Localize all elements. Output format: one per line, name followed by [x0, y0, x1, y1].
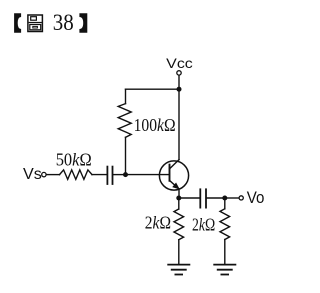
wire base lead: [126, 174, 169, 176]
svg-text:100kΩ: 100kΩ: [134, 115, 176, 135]
figure label 【圖 38】: [14, 10, 87, 35]
wire R3 to ground: [178, 240, 180, 264]
wire emitter junction down to R3: [178, 198, 180, 209]
capacitor C1: [106, 167, 108, 184]
ground (left): [168, 265, 189, 275]
wire emitter down: [178, 189, 180, 198]
wire emitter junction to C2: [179, 197, 200, 199]
svg-text:2kΩ: 2kΩ: [192, 215, 215, 235]
Vs terminal: [42, 172, 46, 176]
svg-text:38: 38: [53, 10, 74, 35]
svg-text:Vo: Vo: [247, 189, 265, 207]
wire R4 to ground: [224, 240, 226, 264]
wire C1 to base junction: [113, 174, 125, 176]
wire collector up: [178, 89, 180, 159]
wire R1 to base junction: [125, 137, 127, 174]
wire down to R1: [125, 89, 127, 103]
ground (right): [214, 265, 235, 275]
wire output junction down to R4: [224, 198, 226, 209]
resistor R3 2kΩ: [174, 209, 184, 240]
wire Vs to R2: [46, 174, 59, 176]
svg-text:Vcc: Vcc: [166, 55, 193, 71]
Vcc terminal: [177, 71, 181, 75]
node: emitter junction: [176, 196, 181, 201]
wire R2 to C1: [92, 174, 107, 176]
wire to Vo terminal: [225, 197, 239, 199]
svg-text:Vs: Vs: [23, 166, 42, 183]
node: base junction: [123, 172, 128, 177]
resistor R4 2kΩ: [220, 209, 230, 240]
svg-text:50kΩ: 50kΩ: [56, 149, 92, 169]
node: output junction: [222, 196, 227, 201]
capacitor C2: [199, 189, 201, 207]
resistor R1 100kΩ: [118, 104, 131, 138]
wire Vcc down to junction: [178, 75, 180, 89]
svg-text:2kΩ: 2kΩ: [145, 213, 171, 233]
wire C2 to output junction: [207, 197, 225, 199]
wire top horizontal to R1 branch: [126, 88, 180, 90]
resistor R2 50kΩ: [60, 170, 93, 180]
node: Vcc junction: [177, 87, 182, 92]
transistor Q1: [159, 160, 188, 190]
Vo terminal: [239, 196, 243, 200]
